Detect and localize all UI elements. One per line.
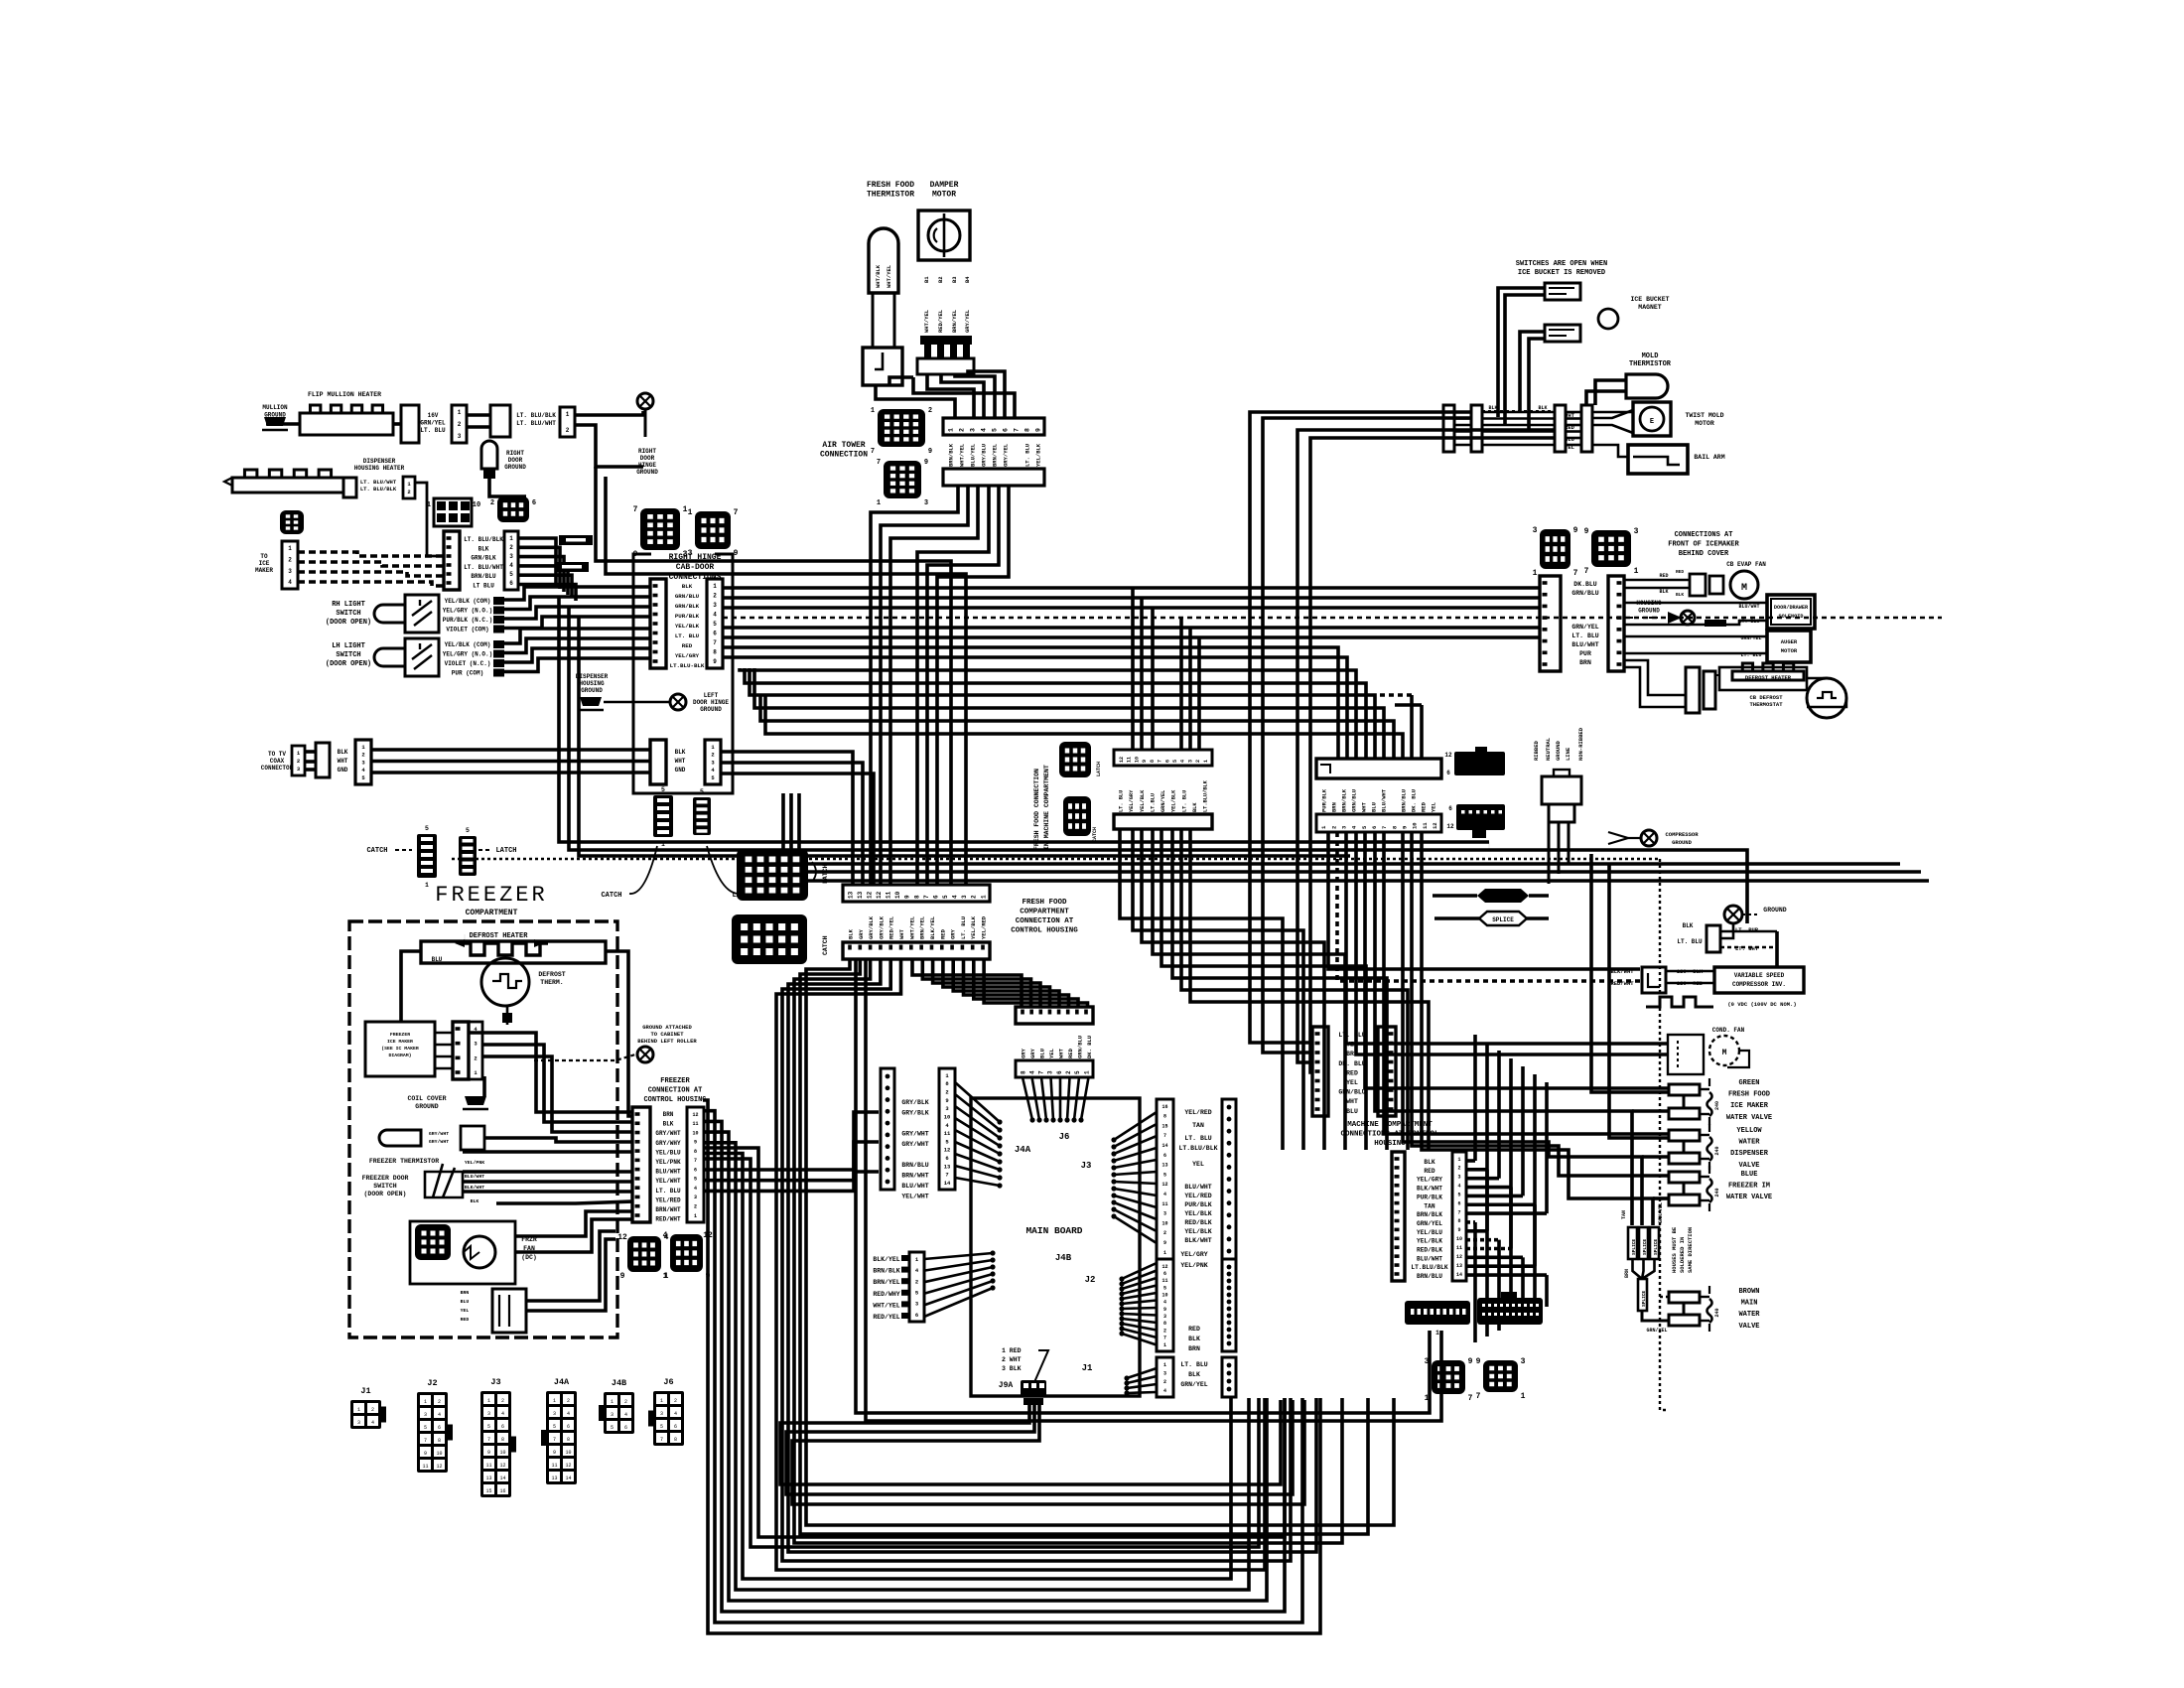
svg-text:6: 6 bbox=[1163, 1153, 1166, 1159]
svg-text:3: 3 bbox=[1457, 1175, 1460, 1181]
svg-text:MOTOR: MOTOR bbox=[1781, 647, 1798, 654]
svg-text:VALVE: VALVE bbox=[1738, 1162, 1759, 1170]
svg-text:12: 12 bbox=[1456, 1254, 1462, 1260]
svg-text:RED: RED bbox=[682, 642, 693, 649]
svg-text:9: 9 bbox=[553, 1450, 556, 1456]
svg-text:GRN/BLU: GRN/BLU bbox=[1351, 789, 1358, 812]
svg-text:13: 13 bbox=[857, 891, 864, 899]
svg-text:2: 2 bbox=[1195, 760, 1201, 763]
svg-text:MOTOR: MOTOR bbox=[932, 191, 956, 200]
svg-text:4: 4 bbox=[694, 1186, 697, 1192]
svg-text:LT. BLU: LT. BLU bbox=[1184, 1135, 1211, 1142]
svg-text:(SEE IC MAKER: (SEE IC MAKER bbox=[381, 1046, 419, 1052]
svg-text:DEFROST HEATER: DEFROST HEATER bbox=[1745, 674, 1792, 681]
svg-text:YEL/RED: YEL/RED bbox=[981, 915, 988, 939]
svg-text:6: 6 bbox=[501, 1424, 504, 1430]
svg-text:LT.BLU/BLK: LT.BLU/BLK bbox=[1203, 779, 1209, 812]
svg-text:AIR TOWER: AIR TOWER bbox=[822, 441, 865, 450]
svg-text:YEL/BLU: YEL/BLU bbox=[1417, 1229, 1442, 1236]
svg-text:7: 7 bbox=[734, 508, 739, 517]
svg-text:1: 1 bbox=[611, 1399, 614, 1405]
svg-text:6: 6 bbox=[567, 1424, 570, 1430]
svg-text:6: 6 bbox=[674, 1424, 677, 1430]
svg-text:J3: J3 bbox=[1081, 1161, 1092, 1171]
svg-text:12: 12 bbox=[436, 1464, 442, 1470]
svg-text:BLK/WHT: BLK/WHT bbox=[1184, 1237, 1211, 1244]
svg-text:7: 7 bbox=[694, 1158, 697, 1164]
svg-text:GRN/BLU: GRN/BLU bbox=[1571, 590, 1598, 597]
svg-text:COMPRESSOR INV.: COMPRESSOR INV. bbox=[1732, 981, 1786, 988]
svg-text:WHT/YEL: WHT/YEL bbox=[908, 915, 915, 939]
svg-text:RED/YEL: RED/YEL bbox=[888, 915, 895, 939]
svg-text:YEL: YEL bbox=[1048, 1048, 1055, 1058]
svg-text:WATER: WATER bbox=[1738, 1311, 1760, 1319]
svg-text:WHT: WHT bbox=[1058, 1048, 1065, 1058]
svg-text:ICE MAKER: ICE MAKER bbox=[1730, 1102, 1769, 1110]
svg-text:7: 7 bbox=[877, 459, 881, 467]
svg-text:7: 7 bbox=[633, 505, 638, 514]
svg-text:3: 3 bbox=[1163, 1314, 1166, 1320]
svg-text:GRN/YEL: GRN/YEL bbox=[1160, 790, 1166, 812]
svg-text:6: 6 bbox=[532, 499, 536, 507]
svg-text:LATCH: LATCH bbox=[1096, 762, 1102, 776]
svg-text:5: 5 bbox=[942, 895, 949, 899]
svg-text:9: 9 bbox=[1034, 428, 1041, 432]
svg-text:5: 5 bbox=[1163, 1285, 1166, 1291]
svg-text:16: 16 bbox=[1161, 1104, 1167, 1110]
svg-text:RED: RED bbox=[939, 928, 946, 939]
svg-text:PUR: PUR bbox=[1579, 650, 1591, 657]
svg-text:7: 7 bbox=[871, 448, 875, 456]
svg-text:CONNECTION: CONNECTION bbox=[820, 451, 868, 460]
svg-text:BLK: BLK bbox=[1676, 592, 1684, 598]
svg-text:3: 3 bbox=[1163, 1370, 1166, 1376]
svg-text:7: 7 bbox=[1158, 760, 1163, 763]
svg-text:BLK: BLK bbox=[1188, 1371, 1200, 1378]
svg-text:4: 4 bbox=[980, 428, 987, 432]
svg-text:LEFT: LEFT bbox=[704, 692, 719, 699]
svg-text:WHT: WHT bbox=[338, 758, 348, 765]
svg-text:RED/YEL: RED/YEL bbox=[937, 309, 944, 333]
svg-text:8: 8 bbox=[1163, 1114, 1166, 1120]
svg-text:LT.BLU/BLK: LT.BLU/BLK bbox=[1411, 1264, 1447, 1271]
svg-text:BRN/BLK: BRN/BLK bbox=[948, 443, 955, 467]
svg-text:LT. BLU/WHT: LT. BLU/WHT bbox=[516, 420, 556, 427]
svg-text:BRN: BRN bbox=[1579, 659, 1591, 666]
svg-text:2: 2 bbox=[474, 1055, 477, 1061]
svg-text:10: 10 bbox=[565, 1450, 571, 1456]
svg-text:THERMISTOR: THERMISTOR bbox=[867, 191, 914, 200]
svg-text:5: 5 bbox=[713, 621, 717, 628]
svg-text:8: 8 bbox=[1024, 428, 1030, 432]
svg-text:3: 3 bbox=[458, 433, 462, 440]
svg-text:BRN: BRN bbox=[1346, 1051, 1358, 1057]
svg-text:B1: B1 bbox=[923, 276, 930, 283]
svg-text:CATCH: CATCH bbox=[601, 892, 621, 900]
svg-text:1: 1 bbox=[509, 535, 513, 542]
svg-text:BLK/WHT: BLK/WHT bbox=[1610, 968, 1634, 975]
svg-text:(DC): (DC) bbox=[521, 1254, 537, 1261]
svg-text:3 BLK: 3 BLK bbox=[1002, 1365, 1022, 1372]
svg-text:7: 7 bbox=[487, 1437, 490, 1443]
svg-text:BLU: BLU bbox=[432, 956, 443, 963]
svg-text:BLU: BLU bbox=[1565, 436, 1574, 443]
svg-text:2: 2 bbox=[490, 499, 494, 507]
svg-text:5: 5 bbox=[466, 827, 470, 834]
svg-text:2: 2 bbox=[1163, 1230, 1166, 1236]
svg-text:5: 5 bbox=[553, 1424, 556, 1430]
svg-text:LT. BLU: LT. BLU bbox=[1119, 790, 1125, 812]
svg-text:RED/WHY: RED/WHY bbox=[873, 1291, 899, 1298]
svg-text:HOUSING: HOUSING bbox=[579, 680, 605, 687]
svg-text:6: 6 bbox=[945, 1155, 948, 1162]
svg-text:HOUSES MUST BE: HOUSES MUST BE bbox=[1671, 1226, 1678, 1273]
svg-text:RIBBED: RIBBED bbox=[1533, 740, 1540, 761]
svg-text:CONNECTION AT: CONNECTION AT bbox=[1016, 917, 1074, 925]
svg-text:3: 3 bbox=[509, 553, 513, 560]
svg-text:J6: J6 bbox=[663, 1377, 673, 1387]
svg-text:YEL/BLK: YEL/BLK bbox=[970, 915, 977, 939]
svg-text:2: 2 bbox=[1065, 1070, 1072, 1074]
svg-text:LT. BLU: LT. BLU bbox=[1338, 1032, 1365, 1039]
svg-text:WATER: WATER bbox=[1738, 1139, 1760, 1147]
svg-text:BLK: BLK bbox=[675, 749, 686, 756]
svg-text:1 RED: 1 RED bbox=[1002, 1347, 1022, 1354]
svg-text:FREEZER: FREEZER bbox=[435, 883, 547, 908]
svg-text:LT. BLU/BLK: LT. BLU/BLK bbox=[464, 536, 503, 543]
svg-text:HOUSING: HOUSING bbox=[1374, 1140, 1406, 1148]
svg-text:FRESH FOOD: FRESH FOOD bbox=[1728, 1091, 1770, 1099]
svg-text:1: 1 bbox=[1203, 760, 1209, 763]
svg-text:BLK/YEL: BLK/YEL bbox=[929, 915, 936, 939]
svg-text:FREEZER DOOR: FREEZER DOOR bbox=[362, 1175, 409, 1182]
svg-text:VIOLET (N.C.): VIOLET (N.C.) bbox=[445, 660, 491, 667]
svg-text:9: 9 bbox=[1142, 760, 1148, 763]
svg-text:YEL/BLK (COM): YEL/BLK (COM) bbox=[445, 598, 491, 605]
svg-text:GRY/BLK: GRY/BLK bbox=[868, 915, 875, 939]
svg-text:12: 12 bbox=[1119, 757, 1125, 763]
svg-text:J9A: J9A bbox=[999, 1381, 1014, 1390]
svg-text:7: 7 bbox=[424, 1438, 427, 1444]
svg-text:B2: B2 bbox=[937, 276, 944, 283]
svg-text:1: 1 bbox=[663, 1272, 668, 1281]
svg-text:BRN/BLK: BRN/BLK bbox=[1341, 788, 1348, 812]
svg-text:B4: B4 bbox=[964, 276, 971, 283]
svg-text:3: 3 bbox=[553, 1411, 556, 1417]
svg-text:5: 5 bbox=[1457, 1192, 1460, 1197]
svg-text:WHT: WHT bbox=[898, 928, 905, 939]
svg-text:2: 2 bbox=[1163, 1379, 1166, 1385]
svg-text:6: 6 bbox=[694, 1167, 697, 1173]
svg-text:RED: RED bbox=[1659, 573, 1668, 579]
svg-text:GROUND: GROUND bbox=[1672, 839, 1693, 846]
svg-text:LT. BLU: LT. BLU bbox=[1181, 790, 1187, 812]
svg-text:CONNECTOR: CONNECTOR bbox=[261, 765, 294, 772]
svg-text:GRY/BLK: GRY/BLK bbox=[878, 915, 885, 939]
svg-text:RED: RED bbox=[1565, 424, 1575, 431]
svg-text:7: 7 bbox=[1381, 826, 1388, 829]
svg-text:2: 2 bbox=[438, 1399, 441, 1405]
svg-text:YEL: YEL bbox=[1431, 801, 1437, 812]
svg-text:YEL: YEL bbox=[461, 1308, 470, 1314]
svg-text:240: 240 bbox=[1714, 1101, 1720, 1110]
svg-text:YEL/GRY: YEL/GRY bbox=[1180, 1251, 1207, 1258]
svg-text:1: 1 bbox=[357, 1407, 360, 1413]
svg-text:E: E bbox=[1650, 418, 1654, 426]
svg-text:FRESH FOOD: FRESH FOOD bbox=[867, 181, 914, 190]
svg-text:4: 4 bbox=[1180, 760, 1186, 763]
svg-text:4: 4 bbox=[509, 562, 513, 569]
svg-text:BLK: BLK bbox=[1188, 1336, 1200, 1342]
svg-text:YEL/GRY: YEL/GRY bbox=[675, 652, 700, 659]
svg-text:LT. BLU: LT. BLU bbox=[960, 916, 967, 939]
svg-text:GROUND ATTACHED: GROUND ATTACHED bbox=[642, 1024, 692, 1031]
svg-text:7: 7 bbox=[1163, 1336, 1166, 1341]
svg-text:3: 3 bbox=[1047, 1070, 1054, 1074]
svg-text:14: 14 bbox=[499, 1476, 505, 1481]
svg-text:GROUND: GROUND bbox=[504, 464, 526, 471]
svg-text:PUR/BLK: PUR/BLK bbox=[1184, 1201, 1211, 1208]
svg-text:ICE BUCKET: ICE BUCKET bbox=[1630, 296, 1669, 303]
svg-text:J1: J1 bbox=[360, 1386, 370, 1396]
svg-text:WHT: WHT bbox=[675, 758, 686, 765]
svg-text:5: 5 bbox=[1163, 1172, 1166, 1178]
svg-text:CB EVAP FAN: CB EVAP FAN bbox=[1726, 561, 1766, 568]
svg-text:11: 11 bbox=[1161, 1201, 1167, 1207]
svg-text:FREEZER THERMISTOR: FREEZER THERMISTOR bbox=[369, 1158, 439, 1165]
svg-text:12: 12 bbox=[1446, 823, 1454, 830]
svg-text:12: 12 bbox=[692, 1112, 698, 1118]
svg-text:12: 12 bbox=[565, 1463, 571, 1469]
svg-text:6: 6 bbox=[932, 895, 939, 899]
svg-text:2: 2 bbox=[501, 1398, 504, 1404]
svg-text:BLU/WHT: BLU/WHT bbox=[1184, 1184, 1211, 1191]
svg-text:7: 7 bbox=[1468, 1394, 1473, 1403]
svg-text:FREEZER: FREEZER bbox=[390, 1032, 410, 1038]
svg-text:2: 2 bbox=[361, 752, 364, 759]
svg-text:7: 7 bbox=[1573, 569, 1578, 578]
svg-text:2 WHT: 2 WHT bbox=[1002, 1356, 1022, 1363]
svg-text:BLU/WHT: BLU/WHT bbox=[1738, 604, 1759, 610]
svg-text:1: 1 bbox=[553, 1398, 556, 1404]
svg-text:CAB-DOOR: CAB-DOOR bbox=[676, 563, 715, 572]
svg-text:3: 3 bbox=[1533, 526, 1538, 535]
svg-text:9: 9 bbox=[713, 658, 717, 665]
svg-text:2: 2 bbox=[458, 421, 462, 428]
svg-text:GRY: GRY bbox=[1029, 1048, 1036, 1058]
svg-text:2: 2 bbox=[624, 1399, 627, 1405]
svg-text:6: 6 bbox=[1446, 770, 1450, 776]
svg-text:MAIN BOARD: MAIN BOARD bbox=[1025, 1225, 1082, 1236]
svg-text:4: 4 bbox=[952, 895, 959, 899]
svg-text:9: 9 bbox=[1584, 527, 1589, 536]
svg-text:CONNECTIONS AT: CONNECTIONS AT bbox=[1675, 531, 1733, 539]
svg-text:GRY/WHT: GRY/WHT bbox=[655, 1130, 681, 1137]
svg-text:12: 12 bbox=[866, 891, 873, 899]
svg-text:BLK: BLK bbox=[1538, 405, 1547, 411]
svg-text:9: 9 bbox=[424, 1451, 427, 1457]
svg-text:1: 1 bbox=[427, 501, 431, 509]
svg-text:13: 13 bbox=[485, 1476, 491, 1481]
svg-text:HINGE: HINGE bbox=[638, 462, 656, 469]
svg-text:TO TV: TO TV bbox=[268, 751, 286, 758]
svg-text:11: 11 bbox=[944, 1130, 951, 1137]
svg-text:8: 8 bbox=[913, 895, 920, 899]
svg-text:CB DEFROST: CB DEFROST bbox=[1749, 694, 1783, 701]
svg-text:1: 1 bbox=[694, 1213, 697, 1219]
svg-text:GRY/YEL: GRY/YEL bbox=[964, 309, 971, 333]
svg-text:TO CABINET: TO CABINET bbox=[650, 1031, 684, 1038]
svg-text:15: 15 bbox=[1161, 1123, 1167, 1129]
svg-text:CATCH: CATCH bbox=[366, 847, 387, 855]
svg-text:RED: RED bbox=[1424, 1168, 1434, 1175]
svg-text:7: 7 bbox=[945, 1172, 948, 1179]
svg-text:4: 4 bbox=[1163, 1300, 1166, 1306]
svg-text:LT. BLU: LT. BLU bbox=[1677, 938, 1703, 945]
svg-text:8: 8 bbox=[1457, 1218, 1460, 1224]
svg-text:DK. BLU: DK. BLU bbox=[1086, 1036, 1093, 1058]
svg-text:BLK: BLK bbox=[1192, 802, 1198, 812]
svg-text:4: 4 bbox=[624, 1412, 627, 1418]
svg-text:6: 6 bbox=[509, 580, 513, 587]
svg-text:1: 1 bbox=[487, 1398, 490, 1404]
svg-text:BRN: BRN bbox=[1188, 1345, 1200, 1352]
svg-text:6: 6 bbox=[1002, 428, 1009, 432]
svg-text:11: 11 bbox=[551, 1463, 557, 1469]
svg-text:FRESH FOOD CONNECTION: FRESH FOOD CONNECTION bbox=[1033, 769, 1040, 850]
svg-text:11: 11 bbox=[1161, 1278, 1167, 1284]
svg-text:MOTOR: MOTOR bbox=[1695, 420, 1714, 427]
svg-text:RED/WHT: RED/WHT bbox=[1610, 980, 1634, 987]
svg-text:GRY/BLU: GRY/BLU bbox=[981, 444, 988, 467]
svg-text:MOLD: MOLD bbox=[1642, 352, 1659, 360]
svg-text:WHT: WHT bbox=[1346, 1098, 1358, 1105]
svg-text:BLU/WHT: BLU/WHT bbox=[1417, 1255, 1442, 1262]
svg-text:7: 7 bbox=[713, 639, 717, 646]
svg-text:BRN: BRN bbox=[461, 1290, 470, 1296]
svg-text:HOUSING HEATER: HOUSING HEATER bbox=[354, 465, 405, 472]
svg-text:DAMPER: DAMPER bbox=[930, 181, 959, 190]
svg-text:WHT: WHT bbox=[1565, 412, 1575, 419]
svg-text:2: 2 bbox=[509, 544, 513, 551]
svg-text:RED/YEL: RED/YEL bbox=[873, 1314, 899, 1321]
svg-text:TAN: TAN bbox=[1621, 1210, 1627, 1219]
svg-text:SPLICE: SPLICE bbox=[1492, 916, 1514, 923]
svg-text:RED: RED bbox=[461, 1317, 470, 1323]
svg-text:7: 7 bbox=[1584, 567, 1589, 576]
svg-text:FLIP MULLION HEATER: FLIP MULLION HEATER bbox=[308, 391, 381, 398]
svg-text:(0 VDC (100V DC NOM.): (0 VDC (100V DC NOM.) bbox=[1727, 1001, 1796, 1008]
svg-text:ICE: ICE bbox=[259, 560, 270, 567]
svg-text:GROUND: GROUND bbox=[415, 1103, 439, 1110]
svg-text:10: 10 bbox=[944, 1113, 951, 1120]
svg-text:8: 8 bbox=[694, 1149, 697, 1155]
svg-text:7: 7 bbox=[923, 895, 930, 899]
svg-text:6: 6 bbox=[1163, 1271, 1166, 1277]
svg-text:8: 8 bbox=[1150, 760, 1156, 763]
svg-text:COAX: COAX bbox=[270, 758, 285, 765]
svg-text:J2: J2 bbox=[1085, 1275, 1096, 1285]
svg-text:GRY/WHT: GRY/WHT bbox=[901, 1131, 928, 1138]
svg-text:PUR/BLK (N.C.): PUR/BLK (N.C.) bbox=[443, 617, 492, 624]
svg-text:THERM.: THERM. bbox=[540, 979, 563, 986]
svg-text:13: 13 bbox=[551, 1476, 557, 1481]
svg-text:GRN/YEL: GRN/YEL bbox=[420, 420, 446, 427]
svg-text:TO: TO bbox=[260, 553, 268, 560]
svg-text:10: 10 bbox=[436, 1451, 442, 1457]
svg-text:RED/BLK: RED/BLK bbox=[1184, 1219, 1211, 1226]
svg-text:11: 11 bbox=[692, 1121, 698, 1127]
svg-text:10: 10 bbox=[1161, 1292, 1167, 1298]
svg-text:WHT/BLK: WHT/BLK bbox=[875, 264, 882, 288]
svg-text:GRY/WHT: GRY/WHT bbox=[901, 1141, 928, 1148]
svg-text:YEL/BLK: YEL/BLK bbox=[1035, 443, 1042, 467]
svg-text:10: 10 bbox=[1456, 1236, 1462, 1242]
svg-text:GRY/WHT: GRY/WHT bbox=[429, 1131, 449, 1137]
svg-text:5: 5 bbox=[1074, 1070, 1081, 1074]
svg-text:15: 15 bbox=[485, 1488, 491, 1494]
svg-text:7: 7 bbox=[1457, 1209, 1460, 1215]
svg-text:NEUTRAL: NEUTRAL bbox=[1545, 737, 1552, 761]
svg-text:6: 6 bbox=[1371, 826, 1378, 829]
svg-text:SWITCH: SWITCH bbox=[336, 610, 360, 618]
svg-text:3: 3 bbox=[961, 895, 968, 899]
svg-text:BRN/YEL: BRN/YEL bbox=[951, 309, 958, 333]
svg-text:YEL/WHT: YEL/WHT bbox=[901, 1194, 928, 1200]
svg-text:GRN/YEL: GRN/YEL bbox=[1646, 1328, 1667, 1334]
svg-text:YEL/RED: YEL/RED bbox=[1184, 1109, 1211, 1116]
svg-text:WHT/YEL: WHT/YEL bbox=[923, 309, 930, 333]
svg-text:2: 2 bbox=[945, 1089, 948, 1096]
svg-text:J2: J2 bbox=[427, 1378, 437, 1388]
svg-text:3: 3 bbox=[660, 1411, 663, 1417]
svg-text:LT. BLU: LT. BLU bbox=[1024, 444, 1031, 467]
svg-text:240: 240 bbox=[1714, 1188, 1720, 1196]
svg-text:9: 9 bbox=[1457, 1227, 1460, 1233]
svg-text:BRN/YEL: BRN/YEL bbox=[919, 915, 926, 939]
svg-text:10: 10 bbox=[1134, 757, 1140, 763]
svg-text:THERMISTOR: THERMISTOR bbox=[1629, 360, 1672, 368]
svg-text:12: 12 bbox=[876, 891, 883, 899]
svg-text:FREEZER IM: FREEZER IM bbox=[1728, 1183, 1770, 1191]
svg-text:MAKER: MAKER bbox=[255, 567, 273, 574]
svg-text:BROWN: BROWN bbox=[1738, 1288, 1759, 1296]
svg-text:IN MACHINE COMPARTMENT: IN MACHINE COMPARTMENT bbox=[1043, 765, 1050, 850]
svg-text:BLK: BLK bbox=[478, 545, 489, 552]
svg-text:LT. BLU: LT. BLU bbox=[420, 427, 446, 434]
svg-text:5: 5 bbox=[700, 788, 704, 795]
svg-text:2: 2 bbox=[288, 556, 292, 563]
svg-text:MACHINE COMPARTMENT: MACHINE COMPARTMENT bbox=[1347, 1121, 1433, 1129]
svg-text:1: 1 bbox=[1521, 1392, 1526, 1401]
svg-text:FRESH FOOD: FRESH FOOD bbox=[1022, 899, 1067, 907]
svg-text:16: 16 bbox=[499, 1488, 505, 1494]
svg-text:COIL COVER: COIL COVER bbox=[407, 1095, 446, 1102]
svg-text:RED: RED bbox=[1067, 1048, 1074, 1058]
svg-text:1: 1 bbox=[871, 407, 875, 415]
svg-text:PUR/BLK: PUR/BLK bbox=[1417, 1194, 1442, 1200]
svg-text:10: 10 bbox=[894, 891, 901, 899]
svg-text:8: 8 bbox=[501, 1437, 504, 1443]
svg-text:3: 3 bbox=[357, 1420, 360, 1426]
svg-text:14: 14 bbox=[1161, 1143, 1167, 1149]
svg-text:11: 11 bbox=[422, 1464, 428, 1470]
svg-text:SPLICE: SPLICE bbox=[1653, 1238, 1659, 1255]
svg-text:YEL/PNK: YEL/PNK bbox=[465, 1160, 484, 1166]
svg-text:14: 14 bbox=[944, 1180, 951, 1187]
svg-text:WHT: WHT bbox=[1361, 801, 1368, 812]
svg-text:9: 9 bbox=[1573, 526, 1578, 535]
